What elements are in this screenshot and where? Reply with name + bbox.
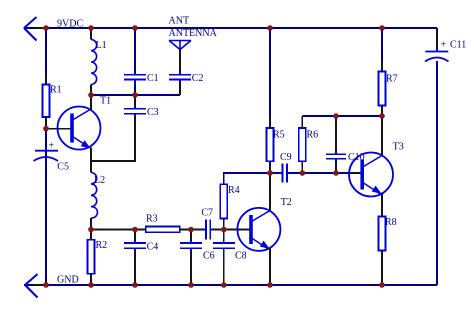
svg-text:C7: C7 xyxy=(201,208,213,219)
svg-text:C3: C3 xyxy=(147,107,159,118)
resistor R4 xyxy=(220,184,227,218)
node bottom rail at C6 xyxy=(188,282,194,288)
node bottom rail at left wire xyxy=(43,282,49,288)
svg-text:R8: R8 xyxy=(385,217,397,228)
svg-text:T1: T1 xyxy=(100,96,111,107)
wire net y=173 right of C9 xyxy=(288,172,352,174)
wire R6 top lead xyxy=(301,116,303,128)
node top rail at R7 xyxy=(379,25,385,31)
svg-text:T2: T2 xyxy=(281,197,292,208)
wire net y=229.5 left segment xyxy=(91,229,205,231)
svg-text:R6: R6 xyxy=(307,130,319,141)
svg-text:C4: C4 xyxy=(147,241,159,252)
resistor R6 xyxy=(299,128,306,161)
wire C6 bottom lead xyxy=(190,249,192,285)
capacitor C4 xyxy=(124,243,146,248)
wire L2 top lead xyxy=(90,161,92,173)
wire C3 bottom to T1 emitter xyxy=(91,114,135,161)
capacitor C7 xyxy=(206,220,210,240)
wire T2 emitter vertical xyxy=(269,247,271,285)
capacitor C6 xyxy=(180,243,202,248)
wire T1 collector rail y=94.5 xyxy=(91,94,180,96)
wire R6 bottom lead xyxy=(301,161,303,173)
wire C4 bottom lead xyxy=(134,249,136,285)
wire net y=173 left of C9 xyxy=(224,173,282,184)
capacitor C1 xyxy=(124,75,146,80)
node bottom rail at C4 xyxy=(132,282,138,288)
node R1/C5/base junction xyxy=(43,126,49,132)
node T1 collector junction xyxy=(88,92,94,98)
antenna ANT xyxy=(169,41,191,50)
wire C8 bottom lead xyxy=(223,249,225,285)
inductor L2 xyxy=(91,173,97,219)
svg-text:C11: C11 xyxy=(450,40,466,51)
transistor T2 xyxy=(237,208,280,251)
wire C2 antenna stem xyxy=(179,50,181,75)
node R5/C9/T2 collector junction xyxy=(267,170,273,176)
wire R7 top lead from rail xyxy=(381,28,383,72)
resistor R5 xyxy=(267,128,274,161)
svg-text:+: + xyxy=(441,40,447,51)
node bottom rail at C8 xyxy=(221,282,227,288)
svg-text:C9: C9 xyxy=(280,152,292,163)
wire C1 top lead xyxy=(134,28,136,74)
transistor T1 xyxy=(58,107,101,150)
resistor R8 xyxy=(379,217,386,251)
wire top 9VDC rail xyxy=(24,27,437,29)
node C1/C3 junction xyxy=(132,92,138,98)
svg-text:R5: R5 xyxy=(273,130,285,141)
inductor L1 xyxy=(91,40,97,85)
node R6 bottom junction xyxy=(300,170,306,176)
svg-text:ANTENNA: ANTENNA xyxy=(169,28,218,39)
capacitor C3 xyxy=(124,109,146,114)
node C6/C7 junction xyxy=(188,227,194,233)
power port GND arrow xyxy=(25,274,38,298)
wire L1 top lead xyxy=(90,28,92,40)
node L2/R2 junction xyxy=(88,227,94,233)
wire C1 bottom lead xyxy=(134,80,136,95)
wire L2 bottom lead xyxy=(90,218,92,230)
svg-text:C8: C8 xyxy=(235,251,247,262)
svg-text:R2: R2 xyxy=(96,240,108,251)
node R7 bottom junction xyxy=(379,113,385,119)
capacitor C9 xyxy=(283,164,287,183)
wire R5 bottom lead xyxy=(269,161,271,173)
capacitor C10 xyxy=(326,154,346,159)
wire T2 collector vertical xyxy=(269,173,271,212)
svg-text:L2: L2 xyxy=(94,175,105,186)
svg-text:R1: R1 xyxy=(50,84,62,95)
wire right vertical lower xyxy=(436,61,438,285)
capacitor C2 xyxy=(169,75,191,80)
node C10 bottom junction xyxy=(333,170,339,176)
wire left vertical xyxy=(45,28,47,285)
svg-text:9VDC: 9VDC xyxy=(57,19,83,30)
svg-text:R7: R7 xyxy=(386,74,398,85)
wire blue pin stubs of capacitors xyxy=(46,48,437,253)
svg-text:T3: T3 xyxy=(393,141,404,152)
svg-text:ANT: ANT xyxy=(169,16,190,27)
svg-text:R3: R3 xyxy=(146,213,158,224)
wire R2 top lead xyxy=(90,230,92,240)
wire R7 bottom lead xyxy=(381,106,383,117)
power port 9VDC arrow xyxy=(24,17,37,41)
wire T3 collector vertical xyxy=(381,116,383,156)
wire T3 base stub xyxy=(350,172,363,174)
node C10 top junction xyxy=(333,113,339,119)
wire T1 collector vertical xyxy=(90,95,92,110)
svg-text:C5: C5 xyxy=(57,162,69,173)
wire C10 top lead xyxy=(335,116,337,154)
node bottom rail at R8 xyxy=(379,282,385,288)
resistor R1 xyxy=(43,85,50,118)
svg-text:GND: GND xyxy=(57,275,79,286)
svg-text:C1: C1 xyxy=(147,73,159,84)
wire C8 top lead xyxy=(223,230,225,243)
node top rail at left wire xyxy=(43,25,49,31)
resistor R7 xyxy=(379,72,386,106)
resistor R2 xyxy=(88,240,95,274)
capacitor C11 polarized xyxy=(425,52,449,62)
wire C2 bottom lead xyxy=(179,80,181,95)
capacitor C5 polarized xyxy=(34,151,59,161)
wire C10 bottom lead xyxy=(335,160,337,174)
wire black pin stubs of resistors xyxy=(34,28,382,285)
wire net y=116 R6/C10/R7 xyxy=(302,115,382,117)
wire R5 top lead from rail xyxy=(269,28,271,128)
wire C6 top lead xyxy=(190,230,192,243)
wire L1 bottom lead xyxy=(90,85,92,96)
wire T3 emitter vertical xyxy=(381,193,383,217)
wire C4 top lead xyxy=(134,230,136,243)
wire net y=229.5 right segment T2 base xyxy=(211,229,251,231)
svg-text:R4: R4 xyxy=(228,185,240,196)
node C7/C8/R4 junction xyxy=(221,227,227,233)
svg-text:C6: C6 xyxy=(203,251,215,262)
wire right vertical upper xyxy=(436,28,438,51)
node C4/R3 junction xyxy=(132,227,138,233)
capacitor C8 xyxy=(213,243,235,248)
node bottom rail at R2 xyxy=(88,282,94,288)
wire T1 base xyxy=(46,128,72,130)
svg-text:L1: L1 xyxy=(96,40,107,51)
node top rail at R5 xyxy=(267,25,273,31)
node top rail at C1 xyxy=(132,25,138,31)
wire R2 bottom lead xyxy=(90,274,92,285)
wire bottom GND rail xyxy=(24,284,437,286)
node bottom rail at T2 emitter xyxy=(267,282,273,288)
node top rail at L1 xyxy=(88,25,94,31)
wire R4 bottom lead xyxy=(223,219,225,230)
wire C3 top lead xyxy=(134,95,136,108)
transistor T3 xyxy=(349,153,393,197)
wire R8 bottom lead xyxy=(381,251,383,286)
svg-text:C2: C2 xyxy=(192,73,204,84)
svg-text:+: + xyxy=(49,141,55,152)
wire T1 emitter vertical xyxy=(90,148,92,162)
resistor R3 xyxy=(146,227,180,233)
